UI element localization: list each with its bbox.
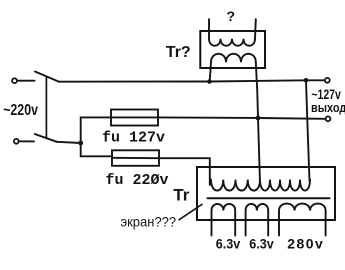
svg-text:~220v: ~220v [3,101,38,119]
wire to fuse fu220 [81,143,112,156]
terminal input top [12,78,17,83]
pointer line ekran [179,204,202,220]
wire output 127v bottom [258,117,325,120]
wire [17,80,34,82]
wire node B down to Tr primary middle tap [258,118,260,183]
wire right vertical to Tr primary right end [306,80,310,181]
svg-text:fu 127v: fu 127v [102,129,165,146]
wire fuse fu220 to Tr primary left lead [159,158,210,185]
transformer Tr? primary winding [209,39,255,46]
svg-text:6.3v: 6.3v [216,236,241,252]
transformer Tr? primary lead right [254,19,257,39]
transformer Tr? secondary left lead [210,62,211,81]
transformer Tr? secondary winding [211,54,256,62]
wire fuse fu127 to node B [158,116,258,119]
svg-text:280v: 280v [287,236,324,252]
transformer Tr? box [200,31,265,68]
transformer Tr secondary winding 280v [279,204,326,236]
svg-text:6.3v: 6.3v [249,236,274,252]
switch S1a blade [35,72,59,82]
fuse fu220 body [112,150,159,166]
svg-text:Tr: Tr [173,186,189,205]
transformer Tr secondary winding 6.3v no.2 [246,204,269,236]
node junction B [256,116,261,121]
terminal output 127v bottom [326,116,331,121]
svg-text:экран???: экран??? [121,214,177,230]
wire Tr? secondary right lead down to node B [256,62,258,118]
svg-text:Tr?: Tr? [166,44,191,61]
terminal input bottom [14,139,19,144]
switch mechanical link [45,76,47,138]
fuse fu127 through wire [111,116,158,118]
wire [57,142,81,143]
transformer Tr screen line [208,197,330,199]
node junction Tr? left lead [207,79,212,84]
terminal output 127v top [325,78,330,83]
transformer Tr box [197,167,335,220]
switch S1b blade [35,134,57,142]
fuse fu127 body [111,110,158,126]
svg-text:?: ? [227,8,236,24]
transformer Tr secondary winding 6.3v no.1 [212,204,236,236]
node junction A [78,141,83,146]
transformer Tr primary winding [211,180,310,191]
transformer Tr? primary lead left [208,19,210,39]
fuse fu220 through wire [112,157,159,159]
svg-text:выход: выход [311,100,345,115]
wire to fuse fu127 [81,117,111,143]
svg-text:fu 22Øv: fu 22Øv [106,172,169,189]
wire top main [59,80,325,81]
node junction right vertical [304,78,309,83]
wire [19,140,34,142]
